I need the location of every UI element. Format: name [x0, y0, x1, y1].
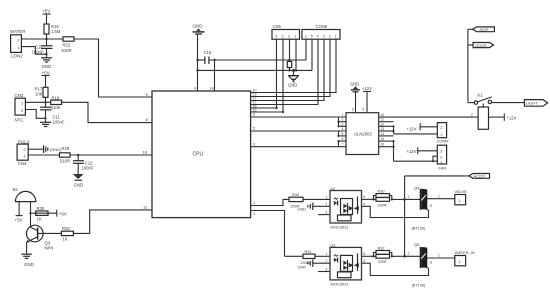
- wire CPU pin14 / VCC rail: [209, 39, 306, 91]
- svg-text:WATER_IN: WATER_IN: [455, 250, 475, 255]
- svg-text:4: 4: [363, 202, 365, 206]
- svg-text:R30: R30: [378, 190, 385, 194]
- svg-text:+5V: +5V: [42, 71, 51, 76]
- wire CPU pin12 to CON6 pin4: [251, 39, 324, 100]
- svg-text:3: 3: [326, 211, 328, 215]
- svg-text:3: 3: [323, 35, 325, 39]
- svg-text:+5V: +5V: [15, 218, 23, 223]
- svg-text:LIGHT: LIGHT: [526, 101, 538, 106]
- svg-text:NTC: NTC: [15, 118, 24, 123]
- svg-text:5: 5: [342, 132, 344, 136]
- svg-text:R34: R34: [292, 193, 299, 197]
- svg-text:1: 1: [438, 194, 440, 198]
- wire CN5 pin4 to ground node: [292, 39, 297, 75]
- net flag LIGHT: [524, 100, 547, 107]
- svg-text:330R: 330R: [378, 260, 387, 264]
- svg-text:10: 10: [381, 113, 385, 117]
- svg-text:GND: GND: [42, 64, 52, 69]
- wire CPU pin2 down: [251, 211, 285, 257]
- svg-text:100nF: 100nF: [32, 50, 44, 55]
- svg-text:R18: R18: [52, 95, 60, 100]
- svg-text:MOC3021: MOC3021: [331, 281, 350, 286]
- svg-text:16: 16: [381, 143, 385, 147]
- svg-text:2: 2: [253, 212, 255, 216]
- resistor R28: [38, 226, 73, 241]
- svg-text:VALVE: VALVE: [455, 189, 468, 194]
- wire U2 pin6 to R30: [362, 195, 377, 200]
- wire R32 to triac Q5: [392, 252, 421, 258]
- wire CPU pin13 to CON6 pin5: [251, 39, 330, 96]
- svg-text:3: 3: [282, 35, 284, 39]
- resistor R18: [51, 95, 62, 110]
- svg-text:NPN: NPN: [45, 245, 54, 250]
- svg-text:3: 3: [440, 150, 442, 154]
- wire GND rail to CON6 pin2: [198, 39, 313, 70]
- svg-text:2: 2: [408, 195, 410, 199]
- svg-text:2: 2: [408, 252, 410, 256]
- svg-text:10K: 10K: [35, 92, 43, 97]
- svg-text:1: 1: [335, 35, 337, 39]
- connector WATER_IN: [455, 250, 475, 266]
- svg-text:6: 6: [253, 113, 255, 117]
- IC U4 ULN2003: [346, 113, 379, 155]
- svg-text:9: 9: [363, 107, 365, 111]
- svg-text:+5V: +5V: [42, 9, 51, 14]
- capacitor C11: [40, 102, 65, 124]
- svg-text:R28: R28: [62, 226, 70, 231]
- capacitor C12: [73, 155, 94, 174]
- connector CON2 WATER: [10, 29, 25, 59]
- power +5V (water section): [42, 9, 51, 25]
- svg-text:Q4: Q4: [414, 185, 420, 190]
- svg-text:4: 4: [363, 259, 365, 263]
- wire triac Q4 to VALVE: [427, 194, 455, 198]
- svg-text:2: 2: [326, 202, 328, 206]
- connector CON6: [302, 24, 340, 39]
- svg-text:14: 14: [381, 132, 385, 136]
- svg-text:2: 2: [440, 126, 442, 130]
- connector CN5: [272, 24, 300, 39]
- wire CPU pin15 to CN5 pin2: [251, 39, 285, 113]
- svg-text:CN5: CN5: [273, 24, 282, 29]
- svg-text:100nF: 100nF: [82, 166, 94, 171]
- wire CPU pin10 to CON6 pin6: [251, 39, 336, 92]
- svg-text:110K: 110K: [51, 105, 61, 110]
- svg-text:R31: R31: [305, 250, 312, 254]
- U3 pin3 stub: [318, 267, 330, 271]
- svg-text:13: 13: [381, 127, 385, 131]
- ULN right pin stubs: [379, 113, 394, 147]
- svg-text:4: 4: [342, 127, 344, 131]
- svg-text:4: 4: [194, 87, 196, 91]
- svg-text:2: 2: [440, 155, 442, 159]
- svg-text:12: 12: [381, 122, 385, 126]
- wire ULN outputs to FAN: [392, 140, 437, 162]
- wire CPU pin5 to ULN pin4: [251, 127, 346, 131]
- sideways ground (U3 pin2): [298, 259, 331, 269]
- resistor pair R30: [374, 190, 393, 208]
- net flag DOOR: [468, 43, 494, 48]
- svg-text:CON6: CON6: [316, 24, 328, 29]
- svg-text:+12V: +12V: [407, 126, 417, 131]
- wire CN3 pin1 to node: [25, 101, 50, 103]
- svg-text:18: 18: [143, 150, 148, 155]
- wire R28 to CPU pin11: [73, 205, 152, 234]
- power +5V (ntc section): [42, 71, 51, 88]
- resistor R29: [28, 146, 70, 164]
- switch K1: [474, 93, 492, 105]
- svg-text:2: 2: [288, 35, 290, 39]
- svg-text:(GND): (GND): [50, 147, 62, 152]
- wire ULN outputs to COMP: [392, 125, 437, 134]
- ground (top connectors): [288, 76, 299, 88]
- svg-text:DISP: DISP: [480, 28, 489, 32]
- svg-text:1K: 1K: [63, 237, 68, 242]
- wire Q3 emitter to ground: [26, 242, 28, 254]
- svg-text:6: 6: [363, 252, 365, 256]
- svg-text:+12V: +12V: [507, 116, 517, 121]
- svg-text:5: 5: [253, 127, 255, 131]
- sideways ground (U2 pin2): [298, 202, 331, 211]
- connector CN3 NTC: [15, 93, 26, 123]
- wire R29 to CPU pin18: [70, 150, 152, 157]
- optocoupler U3 MOC3021: [330, 244, 362, 287]
- svg-text:U2: U2: [331, 187, 336, 191]
- svg-text:ULN2003: ULN2003: [354, 131, 372, 136]
- svg-text:14: 14: [210, 87, 214, 91]
- svg-text:(BT136): (BT136): [412, 283, 426, 287]
- svg-text:Q5: Q5: [414, 242, 420, 247]
- svg-text:6: 6: [363, 195, 365, 199]
- svg-text:1: 1: [438, 254, 440, 258]
- svg-text:1: 1: [440, 133, 442, 137]
- AC bus vertical: [405, 176, 469, 256]
- svg-text:FAN: FAN: [439, 165, 447, 170]
- svg-text:CPU: CPU: [193, 152, 204, 158]
- buzzer B2: [13, 187, 36, 202]
- svg-text:G: G: [430, 204, 433, 208]
- svg-text:MOC3021: MOC3021: [331, 225, 350, 230]
- svg-text:3: 3: [342, 122, 344, 126]
- svg-text:R29: R29: [62, 146, 70, 151]
- svg-text:3: 3: [326, 267, 328, 271]
- resistor R22: [62, 37, 75, 53]
- svg-text:COMP: COMP: [437, 139, 449, 144]
- svg-text:(BT136): (BT136): [412, 227, 426, 231]
- transistor Q3: [26, 225, 53, 250]
- wire CN3 pin2 to ground node: [25, 110, 45, 119]
- connector FAN: [437, 145, 446, 170]
- svg-text:+12V: +12V: [362, 86, 372, 91]
- ground (puls section): [73, 174, 84, 187]
- wire CPU pin3 to ULN pin7: [251, 142, 346, 146]
- svg-text:6: 6: [342, 137, 344, 141]
- power +12V (relay): [489, 114, 517, 121]
- svg-text:2: 2: [329, 35, 331, 39]
- svg-text:R22: R22: [63, 42, 71, 47]
- wire CPU pin4: [194, 34, 199, 91]
- svg-text:330R: 330R: [378, 203, 387, 207]
- resistor R15: [44, 24, 61, 39]
- svg-text:G: G: [430, 261, 433, 265]
- svg-text:2: 2: [326, 259, 328, 263]
- wire CON2 pin1 to ground node: [21, 47, 46, 55]
- wire CON2 pin2 to node: [21, 38, 63, 40]
- power +12V (FAN): [407, 147, 438, 154]
- wire U2 pin4 to gate Q4: [362, 202, 429, 231]
- power +5V (R35): [57, 210, 67, 217]
- ground (CPU pin4): [193, 24, 205, 35]
- ground (ULN pin8): [350, 82, 360, 113]
- svg-text:CN4: CN4: [18, 161, 27, 166]
- svg-text:R35: R35: [37, 206, 45, 211]
- connector VALVE: [455, 189, 468, 205]
- CPU right pin labels: [253, 88, 257, 112]
- svg-text:GND: GND: [24, 262, 34, 267]
- optocoupler U2 MOC3021: [330, 187, 362, 230]
- svg-text:B2: B2: [13, 187, 19, 192]
- svg-text:GND: GND: [288, 83, 297, 88]
- svg-text:15: 15: [381, 137, 385, 141]
- wire R22 to CPU pin9: [74, 39, 152, 97]
- wire triac Q5 to WATER_IN: [427, 254, 455, 258]
- svg-text:100nF: 100nF: [53, 120, 65, 125]
- wire buzzer left leg to +5V: [15, 202, 23, 223]
- capacitor C15: [198, 50, 212, 64]
- svg-text:510R: 510R: [60, 159, 70, 164]
- CPU U1: [152, 91, 251, 218]
- capacitor C10: [32, 39, 53, 58]
- resistor pair R32: [374, 246, 393, 264]
- svg-text:8: 8: [352, 107, 354, 111]
- svg-text:GND: GND: [193, 24, 203, 29]
- ULN left pin stubs and ties: [337, 113, 346, 147]
- svg-text:2: 2: [342, 118, 344, 122]
- resistor R34: [289, 193, 330, 208]
- svg-text:4: 4: [317, 35, 319, 39]
- svg-text:510R: 510R: [62, 48, 72, 53]
- svg-text:WATER: WATER: [10, 29, 25, 34]
- triac Q5: [414, 242, 433, 268]
- resistor R35: [31, 206, 57, 222]
- svg-text:GND: GND: [74, 182, 84, 187]
- wire ULN pin10 to relay coil: [379, 113, 478, 117]
- U2 pin3 stub: [318, 211, 330, 215]
- svg-text:6: 6: [305, 35, 307, 39]
- triac Q4: [414, 185, 433, 210]
- svg-text:AC220: AC220: [474, 175, 485, 179]
- svg-text:1: 1: [440, 161, 442, 165]
- net flag DISP: [468, 27, 495, 32]
- sideways ground (puls): [44, 145, 62, 153]
- svg-text:1K: 1K: [37, 216, 42, 221]
- wire CPU pin16 to CN5 pin1: [251, 39, 278, 109]
- svg-text:GND: GND: [298, 265, 307, 269]
- svg-text:2: 2: [471, 113, 473, 117]
- wire U3 pin4 to gate Q5: [362, 259, 429, 288]
- svg-text:11: 11: [381, 118, 385, 122]
- wire CPU pin6 to ULN pin1: [251, 113, 346, 117]
- svg-text:1: 1: [295, 35, 297, 39]
- svg-text:C15: C15: [204, 50, 212, 55]
- wire CPU pin17 to CON6 pin3: [251, 39, 318, 104]
- wire CN4 pin2 to sideways ground: [28, 148, 43, 150]
- svg-text:1: 1: [253, 201, 255, 205]
- wire CN5 pin3 to rail with jumper: [287, 39, 291, 71]
- wire R18 to CPU pin8: [62, 102, 152, 122]
- svg-text:+5V: +5V: [59, 212, 67, 217]
- connector CN4 PULS: [17, 139, 29, 166]
- wire CPU pin1 to R34: [251, 199, 289, 205]
- svg-text:U3: U3: [331, 244, 336, 248]
- wire R30 to triac Q4: [392, 195, 421, 201]
- ground (water section): [41, 58, 52, 69]
- power +12V (ULN pin9): [362, 86, 372, 113]
- wire K1 to LIGHT flag: [492, 102, 525, 104]
- svg-text:1.5M: 1.5M: [51, 29, 61, 34]
- svg-text:3: 3: [253, 142, 255, 146]
- svg-text:R32: R32: [378, 246, 385, 250]
- svg-text:CON2: CON2: [11, 54, 24, 59]
- ground (ntc section): [40, 122, 51, 126]
- relay coil K1: [478, 104, 488, 130]
- svg-text:1: 1: [342, 113, 344, 117]
- power +12V (COMP): [407, 123, 438, 131]
- svg-text:4: 4: [275, 35, 277, 39]
- svg-text:1: 1: [326, 195, 328, 199]
- wire buzzer right leg to collector: [29, 202, 31, 228]
- svg-text:7: 7: [342, 143, 344, 147]
- ground (Q3 emitter): [21, 254, 33, 267]
- svg-text:DOOR: DOOR: [476, 44, 488, 48]
- svg-text:K1: K1: [478, 93, 484, 98]
- net flag AC220: [469, 174, 490, 179]
- resistor R31: [285, 250, 331, 265]
- connector COMP: [437, 123, 449, 144]
- svg-text:GND: GND: [350, 82, 359, 87]
- wire U3 pin6 to R32: [362, 252, 377, 258]
- svg-text:+12V: +12V: [407, 149, 417, 154]
- svg-text:5: 5: [311, 35, 313, 39]
- svg-text:GND: GND: [298, 208, 307, 212]
- resistor R17: [35, 87, 49, 103]
- svg-text:CN3: CN3: [15, 93, 24, 98]
- wire flag to K1 contact: [468, 29, 474, 102]
- svg-text:1: 1: [326, 252, 328, 256]
